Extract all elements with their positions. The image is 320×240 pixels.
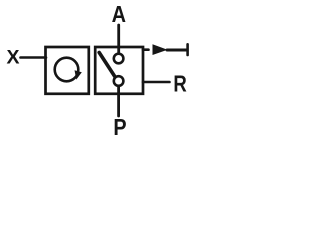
rotation arrowhead	[75, 70, 82, 79]
wire X to pilot box	[21, 56, 47, 59]
rotation circle	[55, 58, 79, 82]
svg-text:P: P	[113, 114, 126, 138]
pilot timer box	[46, 47, 89, 94]
svg-text:X: X	[7, 46, 20, 68]
lower seat circle	[114, 76, 124, 86]
wire R	[143, 81, 170, 84]
exhaust end bar	[186, 44, 189, 55]
wire P	[117, 86, 120, 116]
check valve triangle	[153, 44, 168, 55]
upper seat circle	[114, 54, 124, 64]
wire A to valve	[117, 25, 120, 54]
wire to exhaust check valve	[143, 48, 149, 51]
valve body box	[95, 47, 143, 94]
exhaust line	[167, 49, 187, 52]
poppet lever	[99, 53, 115, 77]
svg-text:A: A	[112, 1, 126, 27]
svg-text:R: R	[173, 70, 187, 96]
